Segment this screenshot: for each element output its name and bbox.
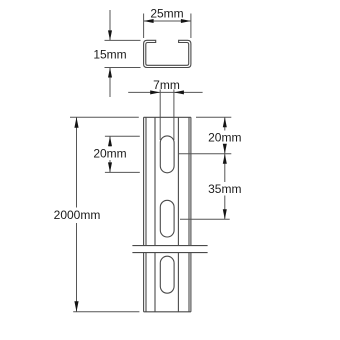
dimension 25mm right arrow <box>181 19 191 23</box>
front view right outer edge (upper segment) <box>190 117 192 245</box>
dimension 20mm right down arrow <box>223 144 227 154</box>
break line upper <box>132 245 207 247</box>
dimension 20mm right up arrow <box>223 117 227 127</box>
dimension 2000mm down arrow <box>74 301 78 312</box>
dimension 20mm left top extension line <box>105 135 140 137</box>
dimension 2000mm line lower segment <box>76 223 78 312</box>
front view left outer edge (upper segment) <box>143 117 145 245</box>
dimension 7mm right extension line <box>173 90 175 141</box>
dimension 15mm upper leader line <box>109 10 111 40</box>
dimension 15mm upper arrow (down) <box>108 30 112 40</box>
dimension 7mm right arrow (points left) <box>174 90 184 94</box>
front view right bend line (upper segment) <box>188 117 190 245</box>
dimension 20mm right line upper segment <box>224 117 226 130</box>
dimension 15mm top extension line <box>105 39 141 41</box>
dimension 35mm bottom extension line <box>180 218 230 220</box>
front view left outer edge (lower segment) <box>143 253 145 312</box>
front view left bend line (lower segment) <box>145 253 147 312</box>
slot 2 <box>160 200 174 237</box>
dimension 2000mm bottom extension line <box>73 311 139 313</box>
dimension 25mm left extension line <box>143 14 145 39</box>
front view right bend line (lower segment) <box>188 253 190 312</box>
channel cross-section profile <box>144 40 191 67</box>
front view left lip edge (upper segment) <box>154 117 156 245</box>
dimension 25mm line <box>144 20 191 22</box>
dimension 20mm left line upper segment <box>109 136 111 146</box>
dimension 25mm left arrow <box>144 19 154 23</box>
svg-text:25mm: 25mm <box>150 7 183 21</box>
slot 1 <box>160 136 174 173</box>
dimension 15mm lower arrow (up) <box>108 68 112 78</box>
svg-text:20mm: 20mm <box>208 131 241 145</box>
dimension 20mm left up arrow <box>108 136 112 146</box>
slot 3 <box>160 256 174 293</box>
dimension 35mm line lower segment <box>224 196 226 220</box>
dimension 7mm line <box>128 91 202 93</box>
dimension 20mm right top extension line <box>196 116 231 118</box>
front view bottom edge <box>144 311 191 313</box>
front view right outer edge (lower segment) <box>190 253 192 312</box>
dimension 20mm right line lower segment <box>224 144 226 154</box>
dimension 7mm left arrow (points right) <box>150 90 160 94</box>
svg-text:7mm: 7mm <box>153 78 180 92</box>
front view right lip edge (lower segment) <box>177 253 179 312</box>
break line lower <box>132 252 207 254</box>
dimension 35mm down arrow <box>223 209 227 219</box>
dimension 35mm line upper segment <box>224 154 226 182</box>
dimension 25mm right extension line <box>190 14 192 39</box>
svg-text:2000mm: 2000mm <box>54 208 101 222</box>
front view top edge <box>144 116 191 118</box>
svg-text:20mm: 20mm <box>93 147 126 161</box>
front view left lip edge (lower segment) <box>154 253 156 312</box>
svg-text:35mm: 35mm <box>208 182 241 196</box>
dimension 15mm bottom extension line <box>105 67 141 69</box>
dimension 35mm up arrow <box>223 154 227 164</box>
dimension 15mm lower leader line <box>109 68 111 98</box>
dimension 20mm right middle extension line <box>179 153 232 155</box>
svg-text:15mm: 15mm <box>93 48 126 62</box>
dimension 2000mm up arrow <box>74 117 78 128</box>
dimension 20mm left bottom extension line <box>105 171 140 173</box>
dimension 2000mm top extension line <box>70 116 139 118</box>
dimension 20mm left line lower segment <box>109 160 111 172</box>
front view left bend line (upper segment) <box>145 117 147 245</box>
dimension 2000mm line upper segment <box>76 117 78 207</box>
dimension 20mm left down arrow <box>108 162 112 172</box>
dimension 7mm left extension line <box>159 90 161 141</box>
front view right lip edge (upper segment) <box>177 117 179 245</box>
